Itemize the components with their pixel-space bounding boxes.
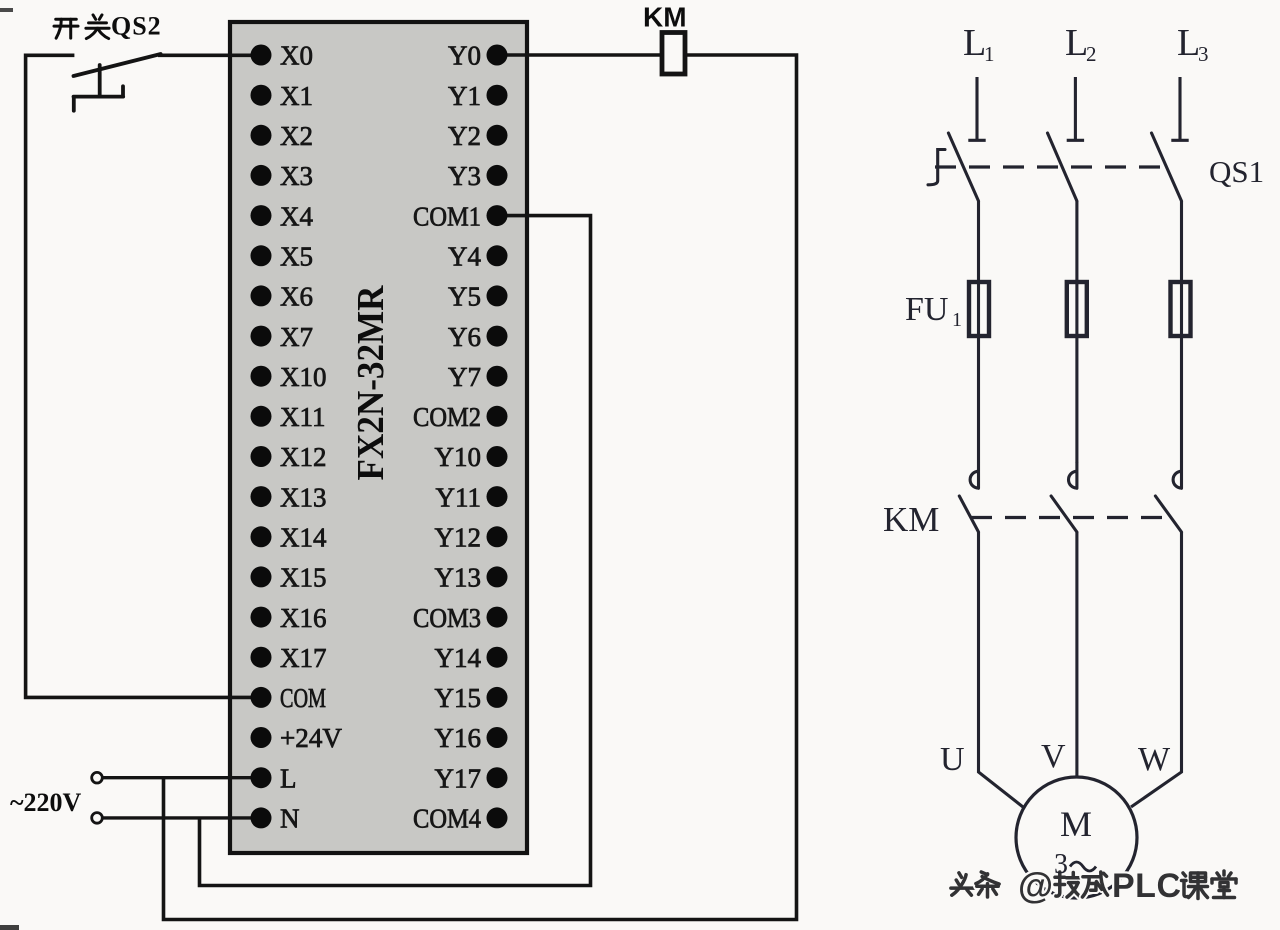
pin X5 bbox=[251, 241, 314, 271]
svg-text:X10: X10 bbox=[280, 362, 327, 392]
PLC module FX2N-32MR body bbox=[230, 22, 527, 853]
pin X1 bbox=[251, 81, 314, 111]
switch QS2 blade bbox=[74, 54, 161, 76]
svg-text:W: W bbox=[1138, 741, 1171, 778]
wire: COM1 -> down -> bottom inner -> N terminal branch bbox=[200, 216, 591, 886]
svg-text:Y15: Y15 bbox=[435, 683, 482, 713]
KM contact 2 blade bbox=[1051, 496, 1077, 532]
svg-text:X0: X0 bbox=[280, 41, 313, 71]
svg-text:X3: X3 bbox=[280, 161, 313, 191]
KM gang link (dashed) bbox=[971, 516, 1174, 519]
svg-text:Y1: Y1 bbox=[448, 81, 481, 111]
wire: Y0 -> KM coil -> right rail -> bottom -> L terminal branch bbox=[164, 55, 797, 920]
svg-text:COM2: COM2 bbox=[413, 402, 481, 432]
svg-text:M: M bbox=[1060, 804, 1092, 844]
svg-text:X17: X17 bbox=[280, 643, 327, 673]
svg-text:COM: COM bbox=[280, 683, 326, 713]
AC source terminal L bbox=[92, 772, 103, 783]
svg-text:N: N bbox=[280, 804, 300, 834]
svg-text:Y6: Y6 bbox=[448, 322, 481, 352]
pin Y1 bbox=[448, 81, 508, 111]
fuse FU1 pole 3 bbox=[1171, 282, 1191, 336]
svg-text:1: 1 bbox=[952, 309, 962, 331]
pin Y10 bbox=[435, 442, 508, 472]
svg-text:Y3: Y3 bbox=[448, 161, 481, 191]
svg-text:U: U bbox=[940, 741, 965, 778]
svg-text:3: 3 bbox=[1054, 849, 1068, 880]
wire: KM contact 1 to motor U bbox=[979, 532, 1024, 807]
AC source terminal N bbox=[92, 813, 103, 824]
svg-text:X13: X13 bbox=[280, 482, 327, 512]
wire: left loop X0 -> COM bbox=[26, 55, 251, 697]
QS1 operating handle bbox=[928, 150, 945, 185]
wire: N terminal to PLC N bbox=[103, 816, 253, 819]
svg-text:QS1: QS1 bbox=[1209, 154, 1264, 189]
fuse FU1 pole 1 bbox=[969, 282, 989, 336]
QS1 pole 2 blade bbox=[1048, 133, 1077, 201]
pin Y16 bbox=[435, 723, 508, 753]
pin +24V bbox=[251, 723, 343, 753]
pin L bbox=[251, 763, 297, 793]
svg-text:Y12: Y12 bbox=[435, 523, 482, 553]
pin Y6 bbox=[448, 322, 508, 352]
motor M bbox=[1016, 777, 1137, 898]
svg-text:3: 3 bbox=[1198, 42, 1209, 66]
svg-text:Y7: Y7 bbox=[448, 362, 481, 392]
L2 lead-in stub bbox=[1067, 77, 1084, 140]
wire: QS1 pole 3 to fuse bbox=[1180, 201, 1183, 463]
pin COM4 bbox=[413, 804, 508, 834]
pin X0 bbox=[251, 41, 314, 71]
scan mark bottom-left bbox=[0, 925, 19, 930]
pin X17 bbox=[251, 643, 327, 673]
pin X15 bbox=[251, 563, 327, 593]
pin X7 bbox=[251, 322, 314, 352]
scan mark top-left bbox=[0, 8, 13, 12]
svg-text:X5: X5 bbox=[280, 241, 313, 271]
pin Y17 bbox=[435, 763, 508, 793]
wire: KM contact 3 to motor W bbox=[1131, 532, 1182, 807]
QS1 pole 3 blade bbox=[1152, 133, 1182, 201]
pin X10 bbox=[251, 362, 327, 392]
svg-text:X1: X1 bbox=[280, 81, 313, 111]
svg-text:Y0: Y0 bbox=[448, 41, 481, 71]
svg-text:Y11: Y11 bbox=[436, 482, 482, 512]
pin Y0 bbox=[448, 41, 508, 71]
KM contact 3 blade bbox=[1155, 496, 1181, 532]
pin X4 bbox=[251, 201, 314, 231]
svg-text:Y4: Y4 bbox=[448, 241, 481, 271]
pin COM2 bbox=[413, 402, 508, 432]
svg-text:KM: KM bbox=[883, 500, 939, 539]
svg-text:@: @ bbox=[1018, 865, 1053, 906]
pin X6 bbox=[251, 282, 314, 312]
svg-text:X16: X16 bbox=[280, 603, 327, 633]
pin Y5 bbox=[448, 282, 508, 312]
svg-text:X12: X12 bbox=[280, 442, 327, 472]
svg-text:X2: X2 bbox=[280, 121, 313, 151]
svg-text:~220V: ~220V bbox=[10, 788, 82, 817]
svg-text:Y2: Y2 bbox=[448, 121, 481, 151]
svg-text:L: L bbox=[1065, 22, 1088, 64]
wire: switch to X0 bbox=[158, 53, 252, 57]
contactor coil KM bbox=[662, 33, 685, 75]
svg-text:X15: X15 bbox=[280, 563, 327, 593]
pin Y13 bbox=[435, 563, 508, 593]
KM contact 3 fixed-side hook bbox=[1173, 463, 1181, 488]
svg-text:X4: X4 bbox=[280, 201, 313, 231]
watermark 头条@技成PLC课堂 bbox=[951, 865, 1236, 906]
pin Y15 bbox=[435, 683, 508, 713]
svg-text:COM4: COM4 bbox=[413, 804, 481, 834]
svg-text:Y16: Y16 bbox=[435, 723, 482, 753]
pin X13 bbox=[251, 482, 327, 512]
wire: QS1 pole 1 to fuse bbox=[977, 201, 980, 463]
switch QS2 actuator bbox=[74, 65, 124, 111]
switch QS2 label 开关QS2 bbox=[54, 12, 162, 41]
svg-text:Y17: Y17 bbox=[435, 763, 482, 793]
svg-text:X14: X14 bbox=[280, 523, 327, 553]
wire: KM contact 2 to motor V bbox=[1075, 532, 1078, 778]
svg-text:V: V bbox=[1041, 738, 1066, 775]
svg-text:1: 1 bbox=[984, 42, 995, 66]
pin X12 bbox=[251, 442, 327, 472]
KM contact 2 fixed-side hook bbox=[1069, 463, 1077, 488]
KM contact 1 blade bbox=[959, 496, 978, 532]
svg-text:PLC: PLC bbox=[1112, 867, 1182, 905]
wire: QS1 pole 2 to fuse bbox=[1075, 201, 1078, 463]
svg-text:X7: X7 bbox=[280, 322, 313, 352]
pin COM3 bbox=[413, 603, 508, 633]
L3 lead-in stub bbox=[1171, 77, 1188, 140]
pin X11 bbox=[251, 402, 326, 432]
pin N bbox=[251, 804, 300, 834]
svg-text:L: L bbox=[280, 763, 297, 793]
pin X14 bbox=[251, 523, 327, 553]
pin Y7 bbox=[448, 362, 508, 392]
QS1 gang link (dashed) bbox=[935, 165, 1166, 168]
svg-text:+24V: +24V bbox=[280, 723, 342, 753]
svg-text:X6: X6 bbox=[280, 282, 313, 312]
pin Y3 bbox=[448, 161, 508, 191]
pin COM bbox=[251, 683, 327, 713]
pin Y2 bbox=[448, 121, 508, 151]
svg-text:KM: KM bbox=[643, 2, 687, 33]
fuse FU1 pole 2 bbox=[1067, 282, 1087, 336]
pin X16 bbox=[251, 603, 327, 633]
svg-text:FX2N-32MR: FX2N-32MR bbox=[350, 285, 392, 481]
pin X3 bbox=[251, 161, 314, 191]
svg-text:2: 2 bbox=[1086, 42, 1097, 66]
svg-text:Y14: Y14 bbox=[435, 643, 482, 673]
pin COM1 bbox=[413, 201, 508, 231]
wire: L terminal to PLC L bbox=[103, 776, 253, 779]
svg-text:COM1: COM1 bbox=[413, 201, 481, 231]
svg-text:X11: X11 bbox=[280, 402, 326, 432]
svg-text:FU: FU bbox=[905, 291, 948, 328]
pin Y11 bbox=[436, 482, 508, 512]
svg-text:Y10: Y10 bbox=[435, 442, 482, 472]
svg-text:L: L bbox=[963, 22, 986, 64]
svg-text:Y13: Y13 bbox=[435, 563, 482, 593]
KM contact 1 fixed-side hook bbox=[970, 463, 978, 488]
svg-text:QS2: QS2 bbox=[111, 12, 162, 41]
svg-text:Y5: Y5 bbox=[448, 282, 481, 312]
pin Y14 bbox=[435, 643, 508, 673]
svg-text:L: L bbox=[1177, 22, 1200, 64]
svg-text:COM3: COM3 bbox=[413, 603, 481, 633]
QS1 pole 1 blade bbox=[948, 133, 978, 201]
pin Y12 bbox=[435, 523, 508, 553]
pin Y4 bbox=[448, 241, 508, 271]
L1 lead-in stub bbox=[968, 77, 985, 140]
pin X2 bbox=[251, 121, 314, 151]
